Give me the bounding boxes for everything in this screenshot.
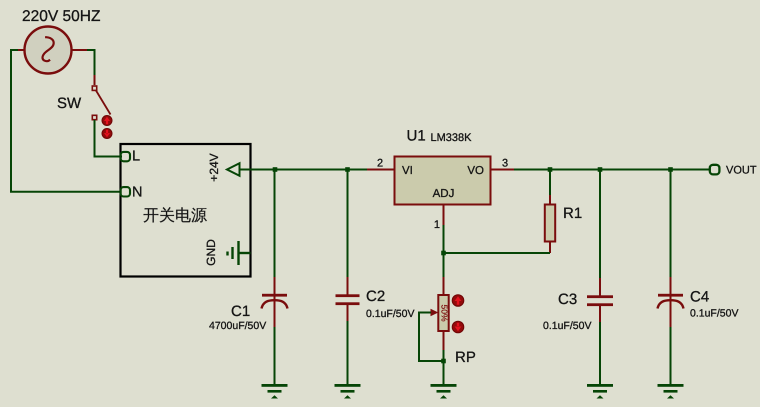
node junction C4 branch xyxy=(668,167,673,172)
svg-text:N: N xyxy=(132,185,142,201)
svg-text:R1: R1 xyxy=(563,205,582,222)
svg-text:RP: RP xyxy=(455,349,476,366)
wire RP to ground xyxy=(443,350,445,384)
regulator U1 LM338K xyxy=(367,128,515,232)
svg-text:0.1uF/50V: 0.1uF/50V xyxy=(690,308,738,320)
svg-text:ADJ: ADJ xyxy=(433,188,455,200)
svg-text:VI: VI xyxy=(402,165,413,177)
wire C1 to ground xyxy=(274,327,276,384)
svg-text:C3: C3 xyxy=(558,291,577,308)
node junction C1 branch xyxy=(273,167,278,172)
ground (C1) xyxy=(262,384,288,399)
node junction RP bottom xyxy=(441,359,446,364)
svg-text:LM338K: LM338K xyxy=(431,132,473,144)
svg-text:C4: C4 xyxy=(690,289,709,306)
svg-text:C2: C2 xyxy=(366,288,385,305)
node junction C2 branch xyxy=(345,167,350,172)
svg-text:0.1uF/50V: 0.1uF/50V xyxy=(543,320,591,332)
wire C3 to ground xyxy=(599,322,601,384)
wire source right to switch xyxy=(72,50,95,85)
ground (C4) xyxy=(658,384,684,399)
wire C2 to ground xyxy=(347,321,349,384)
wire RP wiper loop xyxy=(419,313,444,362)
svg-text:50%: 50% xyxy=(439,304,449,321)
ground (C3) xyxy=(587,384,613,399)
switch SW xyxy=(57,86,111,120)
svg-text:1: 1 xyxy=(434,219,440,231)
terminal VOUT xyxy=(710,165,757,177)
svg-text:4700uF/50V: 4700uF/50V xyxy=(209,320,266,332)
ground (RP) xyxy=(431,384,457,399)
resistor R1 xyxy=(545,195,582,253)
power supply module 开关电源 xyxy=(121,144,251,277)
svg-text:VOUT: VOUT xyxy=(726,165,757,177)
svg-text:0.1uF/50V: 0.1uF/50V xyxy=(366,308,414,320)
wire rail down to C3 xyxy=(599,170,601,280)
svg-text:GND: GND xyxy=(204,239,218,266)
svg-text:VO: VO xyxy=(467,165,484,177)
svg-text:220V 50HZ: 220V 50HZ xyxy=(22,8,100,25)
wire switch to L xyxy=(95,120,123,157)
svg-text:+24V: +24V xyxy=(207,153,221,181)
wire VO rail to VOUT xyxy=(514,169,711,171)
wire C4 to ground xyxy=(670,327,672,384)
svg-text:C1: C1 xyxy=(231,303,250,320)
node junction ADJ xyxy=(441,251,446,256)
ground (C2) xyxy=(335,384,361,399)
capacitor C2 0.1uF/50V xyxy=(336,277,415,322)
wire +24V rail to U1 xyxy=(239,169,368,171)
capacitor C3 0.1uF/50V xyxy=(543,278,613,332)
svg-text:U1: U1 xyxy=(407,128,426,145)
svg-text:L: L xyxy=(132,149,140,165)
wire rail down to C1 xyxy=(274,170,276,279)
capacitor C4 0.1uF/50V xyxy=(658,277,739,328)
svg-text:SW: SW xyxy=(57,95,82,112)
svg-text:2: 2 xyxy=(377,158,383,170)
potentiometer RP actuator buttons xyxy=(452,295,464,333)
AC source V1 220V 50HZ xyxy=(22,8,100,74)
wire rail down to C2 xyxy=(347,170,349,279)
wire rail down to R1 xyxy=(549,170,551,197)
wire R1 bottom to ADJ node xyxy=(444,225,551,278)
switch actuator buttons xyxy=(102,116,112,139)
svg-text:3: 3 xyxy=(502,158,508,170)
potentiometer RP xyxy=(425,277,476,366)
wire source left to N xyxy=(11,50,121,192)
node junction C3 branch xyxy=(598,167,603,172)
wire rail down to C4 xyxy=(670,170,672,279)
node junction R1 branch xyxy=(548,167,553,172)
capacitor C1 4700uF/50V xyxy=(209,277,288,332)
